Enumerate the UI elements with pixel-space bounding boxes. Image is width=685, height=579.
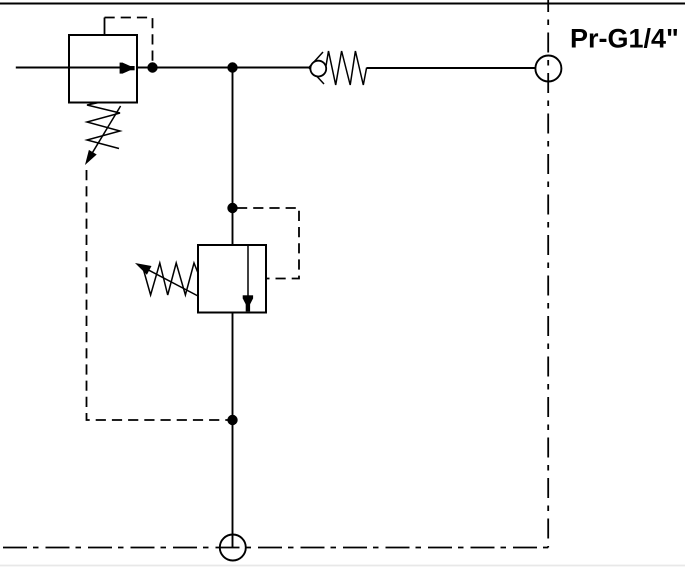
node C (pilot tap above valve U2) bbox=[227, 203, 237, 213]
valve U2 flow path arrow (inside box, pointing down) bbox=[243, 245, 253, 311]
node B (tee junction to vertical branch) bbox=[227, 62, 237, 72]
check valve CV1 seat bbox=[309, 52, 324, 84]
check valve CV1 ball bbox=[310, 61, 326, 77]
wire: vertical branch from node B down to valve U2 bbox=[232, 68, 234, 246]
valve U1 pilot line (dashed loop from box top to node A) bbox=[105, 18, 153, 64]
wire: main line from valve U1 to check valve bbox=[137, 67, 309, 69]
valve U2 pilot line (dashed, node C to box right side) bbox=[237, 208, 299, 279]
valve U1 adjustment arrow bbox=[85, 106, 121, 165]
enclosure boundary right chain line bbox=[547, 0, 549, 548]
svg-text:Pr-G1/4": Pr-G1/4" bbox=[570, 24, 679, 54]
wire: check valve to port Pr bbox=[367, 67, 536, 69]
node D (junction with U1 pilot return) bbox=[227, 415, 237, 425]
valve U2 adjustment arrow bbox=[135, 263, 198, 296]
valve U1 body (pressure reducing valve, top-left) bbox=[69, 35, 137, 103]
valve U1 flow arrow bbox=[120, 63, 135, 74]
node A (pilot junction on main line) bbox=[147, 62, 157, 72]
valve U1 pilot return line (dashed, arrow tip down and across to node D) bbox=[87, 170, 229, 420]
port T (bottom tank port circle) bbox=[220, 535, 246, 561]
valve U2 adjustment spring bbox=[143, 263, 198, 295]
valve U1 adjustment spring bbox=[87, 103, 120, 149]
check valve CV1 spring bbox=[326, 51, 367, 85]
enclosure boundary top line bbox=[0, 3, 685, 5]
enclosure boundary bottom chain line bbox=[3, 547, 548, 549]
wire: inlet line from left into valve U1 bbox=[16, 67, 121, 69]
valve U2 body (relief valve, middle) bbox=[198, 245, 266, 313]
wire: valve U2 outlet down to port T bbox=[232, 313, 234, 549]
port Pr (gauge port circle) bbox=[535, 56, 561, 82]
